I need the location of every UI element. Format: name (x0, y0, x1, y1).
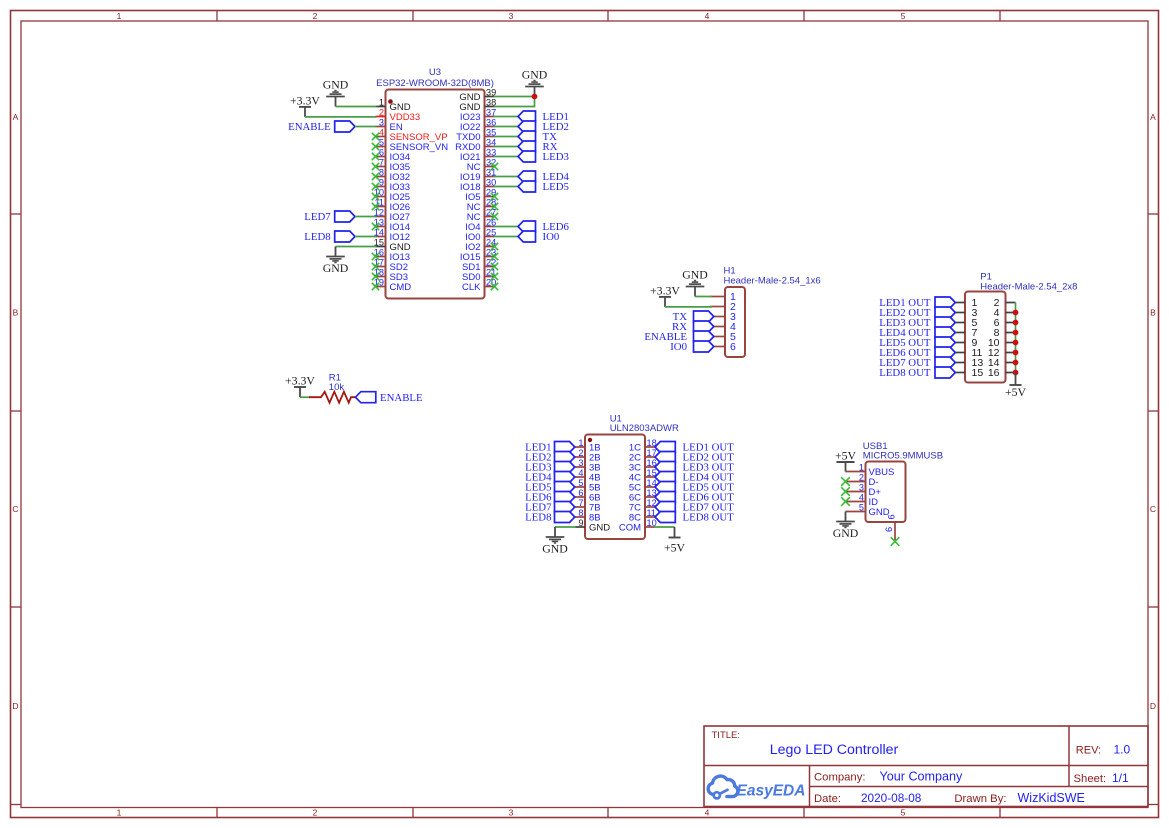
U3 pin 5 SENSOR_VN (376, 138, 449, 154)
svg-text:ESP32-WROOM-32D(8MB): ESP32-WROOM-32D(8MB) (376, 78, 494, 89)
net flag LED5 OUT (U1 pin 14) (655, 482, 734, 494)
svg-text:B: B (1150, 308, 1156, 318)
net flag LED1 (U1 pin 1) (525, 442, 575, 454)
net flag LED7 OUT (P1 pin 13) (879, 357, 955, 369)
svg-text:GND: GND (323, 261, 349, 275)
P1 pin 4 (994, 307, 1016, 319)
no-connect X U3 pin 19 (372, 283, 379, 290)
wire U3 pin39 to GND (494, 96, 535, 98)
wire P1 pin to bus (1015, 352, 1017, 354)
H1 pin 1 (710, 291, 736, 303)
net flag LED7 OUT (U1 pin 12) (655, 502, 734, 514)
net flag LED2 (U3 pin 36) (518, 121, 569, 133)
svg-text:3: 3 (509, 11, 514, 21)
svg-text:9: 9 (379, 178, 384, 188)
wire H1 pin1 to GND (695, 296, 712, 298)
U3 pin 6 IO34 (376, 148, 411, 164)
no-connect X USB1 pin 3 (841, 487, 850, 496)
wire H1 pin2 to +3.3V (665, 306, 712, 308)
net flag LED2 (U1 pin 2) (525, 452, 575, 464)
net flag LED4 OUT (U1 pin 15) (655, 472, 734, 484)
svg-text:6: 6 (730, 341, 736, 353)
net flag LED5 OUT (P1 pin 9) (879, 337, 955, 349)
svg-text:REV:: REV: (1076, 745, 1101, 757)
U3 pin 36 IO22 (460, 118, 496, 134)
U1 pin 8 8B (575, 508, 601, 524)
P1 pin 12 (988, 347, 1016, 359)
svg-text:+3.3V: +3.3V (650, 283, 680, 297)
U3 pin 35 TXD0 (456, 128, 496, 144)
no-connect X U3 pin 20 (491, 283, 498, 290)
no-connect X U3 pin 10 (372, 193, 379, 200)
connector H1 body (725, 287, 745, 357)
no-connect X U3 pin 22 (491, 263, 498, 270)
U3 pin 17 SD2 (374, 258, 408, 274)
ground symbol (below U3 pin 15) (323, 247, 349, 275)
svg-text:1: 1 (578, 438, 583, 448)
USB1 pin 6 shield (884, 514, 897, 540)
junction (1013, 360, 1019, 366)
junction dot (532, 94, 538, 100)
svg-text:GND: GND (589, 523, 610, 534)
U3 pin 37 IO23 (460, 108, 496, 124)
U3 pin 4 SENSOR_VP (376, 128, 448, 144)
P1 pin 16 (988, 367, 1016, 379)
junction (1013, 370, 1019, 376)
U3 pin 39 GND (459, 88, 496, 104)
wire P1 +5V bus (1015, 303, 1017, 373)
svg-text:LED8: LED8 (525, 512, 551, 524)
svg-text:4: 4 (379, 128, 384, 138)
junction (1013, 320, 1019, 326)
U1 pin 1 1B (575, 438, 601, 454)
svg-text:TITLE:: TITLE: (712, 730, 741, 741)
svg-text:4: 4 (859, 493, 864, 503)
no-connect X USB1 pin 4 (841, 497, 850, 506)
svg-text:1/1: 1/1 (1112, 771, 1129, 785)
svg-text:CLK: CLK (462, 282, 481, 293)
svg-text:15: 15 (972, 367, 984, 379)
svg-text:A: A (13, 112, 19, 122)
net flag LED4 (U1 pin 4) (525, 472, 575, 484)
svg-text:3: 3 (859, 483, 864, 493)
net flag TX (U3 pin 35) (518, 131, 557, 143)
ground symbol (below U1 pin 9) (542, 527, 568, 555)
net flag ENABLE (right of R1) (356, 392, 423, 404)
P1 pin 11 (955, 347, 983, 359)
no-connect X U3 pin 18 (372, 273, 379, 280)
svg-text:MICRO5.9MMUSB: MICRO5.9MMUSB (863, 451, 943, 462)
net flag ENABLE (H1 pin 5) (644, 331, 713, 343)
wire U3 pin30 to LED5 (494, 186, 519, 188)
svg-text:6: 6 (379, 148, 384, 158)
svg-text:LED3: LED3 (543, 151, 569, 163)
net flag LED2 OUT (U1 pin 17) (655, 452, 734, 464)
U3 pin 31 IO19 (460, 168, 496, 184)
net flag LED3 OUT (P1 pin 5) (879, 317, 955, 329)
svg-text:Lego LED Controller: Lego LED Controller (770, 742, 899, 758)
svg-text:Sheet:: Sheet: (1074, 773, 1107, 785)
no-connect X U3 pin 17 (372, 263, 379, 270)
wire U3 pin31 to LED4 (494, 176, 519, 178)
wire U3 pin33 to LED3 (494, 156, 519, 158)
svg-text:2: 2 (379, 108, 384, 118)
net flag LED3 (U3 pin 33) (518, 151, 569, 163)
P1 pin 5 (955, 317, 978, 329)
title block (704, 726, 1148, 807)
svg-text:D: D (1150, 701, 1156, 711)
no-connect X U3 pin 6 (372, 153, 379, 160)
U3 pin 2 VDD33 (376, 108, 421, 124)
R1 value labels (329, 373, 345, 393)
U1 pin 4 4B (575, 468, 601, 484)
svg-text:5: 5 (578, 478, 583, 488)
wire U3 pin1 to GND (336, 106, 377, 108)
svg-text:Company:: Company: (814, 772, 866, 784)
power +5V (below U1 pin 10) (664, 527, 686, 555)
svg-text:3: 3 (509, 808, 514, 818)
U3 pin 29 IO5 (465, 188, 496, 204)
svg-text:IO0: IO0 (670, 341, 687, 353)
svg-text:4: 4 (705, 808, 710, 818)
H1 reference designator label (724, 265, 821, 286)
net flag LED5 (U3 pin 30) (518, 181, 569, 193)
U1 pin 18 1C (629, 438, 657, 454)
P1 reference designator label (980, 272, 1077, 293)
EasyEDA logo (708, 776, 805, 799)
svg-text:GND: GND (323, 78, 349, 92)
no-connect X U3 pin 21 (491, 273, 498, 280)
P1 pin 6 (994, 317, 1016, 329)
P1 pin 15 (955, 367, 983, 379)
net flag LED8 (U1 pin 8) (525, 512, 575, 524)
net flag LED1 OUT (P1 pin 1) (879, 297, 955, 309)
svg-text:+3.3V: +3.3V (290, 93, 320, 107)
U3 pin 26 IO4 (465, 218, 496, 234)
net flag IO0 (H1 pin 6) (670, 341, 714, 353)
svg-text:16: 16 (988, 367, 1000, 379)
net flag RX (U3 pin 34) (518, 141, 558, 153)
wire U3 pin25 to IO0 (494, 236, 519, 238)
wire P1 pin to bus (1015, 332, 1017, 334)
svg-text:GND: GND (522, 68, 548, 82)
no-connect X U3 pin 8 (372, 173, 379, 180)
svg-text:GND: GND (833, 526, 859, 540)
power +3.3V (at R1) (285, 373, 315, 397)
net flag LED4 OUT (P1 pin 7) (879, 327, 955, 339)
svg-text:3: 3 (379, 118, 384, 128)
P1 pin 7 (955, 327, 978, 339)
no-connect X U3 pin 16 (372, 253, 379, 260)
net flag LED6 OUT (U1 pin 13) (655, 492, 734, 504)
net flag LED6 OUT (P1 pin 11) (879, 347, 955, 359)
net flag LED2 OUT (P1 pin 3) (879, 307, 955, 319)
U1 pin 9 GND (575, 518, 610, 534)
U1 reference designator label (610, 414, 679, 434)
P1 pin 9 (955, 337, 978, 349)
svg-text:U3: U3 (429, 67, 441, 78)
svg-text:A: A (1150, 112, 1156, 122)
U1 pin 12 7C (629, 498, 657, 514)
net flag LED8 OUT (U1 pin 11) (655, 512, 734, 524)
U1 pin 6 6B (575, 488, 601, 504)
no-connect X USB1 pin 2 (841, 477, 850, 486)
wire U1 pin10 to +5V (654, 526, 675, 528)
junction (1013, 340, 1019, 346)
svg-text:1: 1 (379, 98, 384, 108)
svg-text:5: 5 (859, 503, 864, 513)
wire U3 pin38 up to GND junction (494, 97, 535, 107)
net flag LED3 (U1 pin 3) (525, 462, 575, 474)
svg-text:C: C (1150, 504, 1156, 514)
U3 pin 25 IO0 (465, 228, 496, 244)
U3 pin 34 RXD0 (455, 138, 496, 154)
wire +3.3V to R1 (300, 396, 310, 398)
U1 pin 16 3C (629, 458, 657, 474)
H1 pin 3 (710, 311, 736, 323)
U3 pin 32 NC (467, 158, 496, 174)
P1 pin 2 (994, 297, 1016, 309)
net flag LED4 (U3 pin 31) (518, 171, 569, 183)
U1 pin 3 3B (575, 458, 601, 474)
U3 pin 24 IO2 (465, 238, 496, 254)
wire U3 pin12 to LED7 (355, 216, 377, 218)
resistor R1 (309, 392, 357, 403)
U3 pin 14 IO12 (374, 228, 410, 244)
net flag LED5 (U1 pin 5) (525, 482, 575, 494)
U3 pin 3 EN (376, 118, 403, 134)
svg-text:ENABLE: ENABLE (380, 392, 423, 404)
wire P1 pin to bus (1015, 362, 1017, 364)
no-connect X U3 pin 27 (491, 213, 498, 220)
wire U3 pin35 to TX (494, 136, 519, 138)
svg-text:2: 2 (313, 808, 318, 818)
svg-text:Header-Male-2.54_2x8: Header-Male-2.54_2x8 (980, 282, 1077, 293)
no-connect X U3 pin 9 (372, 183, 379, 190)
no-connect X U3 pin 23 (491, 253, 498, 260)
U3 pin 12 IO27 (374, 208, 410, 224)
svg-text:2: 2 (313, 11, 318, 21)
svg-text:8: 8 (578, 508, 583, 518)
svg-text:10k: 10k (329, 382, 345, 393)
USB1 pin 2 D- (846, 473, 879, 489)
power +5V (below P1) (1005, 373, 1027, 399)
svg-text:+3.3V: +3.3V (285, 373, 315, 387)
net flag LED7 (U1 pin 7) (525, 502, 575, 514)
net flag LED6 (U3 pin 26) (518, 221, 569, 233)
net flag LED7 (U3 pin 12) (304, 211, 355, 223)
net flag LED8 (U3 pin 14) (304, 231, 355, 243)
U3 pin 18 SD3 (374, 268, 408, 284)
U1 pin 11 8C (629, 508, 656, 524)
no-connect X U3 pin 11 (372, 203, 379, 210)
svg-text:LED5: LED5 (543, 181, 569, 193)
svg-text:COM: COM (619, 523, 641, 534)
U1 pin 14 5C (629, 478, 657, 494)
net flag ENABLE (U3 pin 3) (288, 121, 355, 133)
svg-text:LED8 OUT: LED8 OUT (683, 512, 735, 524)
wire U3 pin26 to LED6 (494, 226, 519, 228)
svg-text:4: 4 (705, 11, 710, 21)
U3 pin 15 GND (374, 238, 411, 254)
P1 pin 1 (955, 297, 978, 309)
svg-text:+5V: +5V (1005, 385, 1027, 399)
wire U3 pin34 to RX (494, 146, 519, 148)
U3 pin 19 CMD (374, 278, 412, 294)
net flag RX (H1 pin 4) (672, 321, 714, 333)
junction (1013, 310, 1019, 316)
net flag LED1 (U3 pin 37) (518, 111, 569, 123)
svg-text:+5V: +5V (835, 448, 857, 462)
svg-text:5: 5 (379, 138, 384, 148)
P1 pin 13 (955, 357, 983, 369)
svg-text:3: 3 (578, 458, 583, 468)
U3 pin 21 SD0 (462, 268, 496, 284)
no-connect X U3 pin 7 (372, 163, 379, 170)
svg-text:2: 2 (578, 448, 583, 458)
U3 pin 23 IO15 (460, 248, 496, 264)
ground symbol (above wire, at U3 pin 1) (323, 78, 349, 107)
power +3.3V (at U3 pin 2) (290, 93, 320, 117)
svg-text:1: 1 (117, 11, 122, 21)
net flag LED8 OUT (P1 pin 15) (879, 367, 955, 379)
svg-text:7: 7 (379, 158, 384, 168)
svg-text:D: D (12, 701, 18, 711)
U3 pin 27 NC (467, 208, 496, 224)
junction (1013, 330, 1019, 336)
U3 pin 38 GND (459, 98, 496, 114)
U1 pin 15 4C (629, 468, 657, 484)
wire P1 pin to bus (1015, 342, 1017, 344)
USB1 reference designator label (863, 441, 943, 462)
U3 pin 16 IO13 (374, 248, 410, 264)
op-amp U3 ESP32 module body (386, 90, 485, 299)
svg-text:LED7: LED7 (304, 211, 331, 223)
svg-text:WizKidSWE: WizKidSWE (1018, 791, 1085, 805)
U1 pin 13 6C (629, 488, 657, 504)
wire U3 pin15 to GND (336, 246, 377, 248)
U1 pin 7 7B (575, 498, 601, 514)
P1 pin 10 (988, 337, 1016, 349)
wire U3 pin2 to +3.3V (305, 116, 377, 118)
svg-text:6: 6 (887, 514, 897, 519)
svg-text:C: C (12, 504, 18, 514)
power +5V (above USB1 pin 1) (835, 448, 857, 471)
wire P1 pin to bus (1015, 312, 1017, 314)
U1 pin 17 2C (629, 448, 657, 464)
U3 pin 8 IO32 (376, 168, 411, 184)
svg-text:B: B (13, 308, 19, 318)
U3 pin 1 GND (376, 98, 411, 114)
svg-text:GND: GND (542, 541, 568, 555)
svg-text:GND: GND (682, 268, 708, 282)
net flag IO0 (U3 pin 25) (518, 231, 559, 243)
U3 pin 9 IO33 (376, 178, 411, 194)
svg-text:5: 5 (901, 808, 906, 818)
P1 pin 14 (988, 357, 1016, 369)
wire U1 pin9 to GND (555, 526, 576, 528)
H1 pin 4 (710, 321, 736, 333)
no-connect X U3 pin 28 (491, 203, 498, 210)
USB1 pin 3 D+ (846, 483, 882, 499)
connector USB1 body (866, 462, 906, 523)
P1 pin 8 (994, 327, 1016, 339)
USB1 pin 5 GND (846, 503, 890, 519)
U3 pin 20 CLK (462, 278, 496, 294)
no-connect X U3 pin 29 (491, 193, 498, 200)
no-connect X U3 pin 24 (491, 243, 498, 250)
U3 pin 28 NC (467, 198, 496, 214)
U3 pin 30 IO18 (460, 178, 496, 194)
no-connect X U3 pin 5 (372, 143, 379, 150)
ground symbol (above H1 pin 1) (682, 268, 708, 297)
U1 pin 5 5B (575, 478, 601, 494)
svg-text:Your Company: Your Company (880, 770, 964, 784)
U1 pin 2 2B (575, 448, 601, 464)
svg-text:8: 8 (379, 168, 384, 178)
svg-text:4: 4 (578, 468, 583, 478)
H1 pin 2 (710, 301, 736, 313)
svg-text:7: 7 (578, 498, 583, 508)
P1 pin 3 (955, 307, 978, 319)
svg-text:Header-Male-2.54_1x6: Header-Male-2.54_1x6 (724, 276, 821, 287)
ground symbol top right of U3 (522, 68, 548, 97)
U3 pin 7 IO35 (376, 158, 411, 174)
wire U3 pin3 to ENABLE (355, 126, 377, 128)
svg-text:6: 6 (884, 527, 894, 532)
no-connect X U3 pin 13 (372, 223, 379, 230)
svg-text:ENABLE: ENABLE (288, 121, 331, 133)
svg-text:LED8: LED8 (304, 231, 330, 243)
svg-text:5: 5 (901, 11, 906, 21)
svg-text:Drawn By:: Drawn By: (954, 793, 1006, 805)
net flag LED6 (U1 pin 6) (525, 492, 575, 504)
svg-text:2: 2 (859, 473, 864, 483)
net flag TX (H1 pin 3) (673, 311, 714, 323)
U3 pin 22 SD1 (462, 258, 496, 274)
IC U1 body (585, 435, 645, 540)
svg-text:ULN2803ADWR: ULN2803ADWR (610, 423, 679, 434)
no-connect X U3 pin 32 (491, 163, 498, 170)
svg-text:IO0: IO0 (543, 231, 560, 243)
net flag LED3 OUT (U1 pin 16) (655, 462, 734, 474)
U1 pin 10 COM (619, 518, 657, 534)
net flag LED1 OUT (U1 pin 18) (655, 442, 734, 454)
ground symbol (below USB1 pin 5) (833, 512, 859, 540)
U3 reference designator label (376, 67, 494, 89)
svg-text:+5V: +5V (664, 541, 686, 555)
svg-text:Date:: Date: (814, 793, 841, 805)
connector P1 body (965, 292, 1006, 383)
power +3.3V (at H1 pin 2) (650, 283, 680, 307)
H1 pin 5 (710, 331, 736, 343)
U3 pin 13 IO14 (374, 218, 410, 234)
wire P1 pin to bus (1015, 322, 1017, 324)
wire U3 pin36 to LED2 (494, 126, 519, 128)
H1 pin 6 (710, 341, 736, 353)
svg-text:2020-08-08: 2020-08-08 (861, 791, 922, 805)
U3 pin 10 IO25 (374, 188, 410, 204)
svg-text:EasyEDA: EasyEDA (737, 783, 806, 800)
wire U3 pin37 to LED1 (494, 116, 519, 118)
no-connect X USB1 pin 6 (891, 537, 900, 546)
svg-text:1: 1 (859, 463, 864, 473)
U3 pin 11 IO26 (374, 198, 410, 214)
USB1 pin 1 VBUS (846, 463, 895, 479)
junction (1013, 350, 1019, 356)
wire U3 pin14 to LED8 (355, 236, 377, 238)
no-connect X U3 pin 4 (372, 133, 379, 140)
